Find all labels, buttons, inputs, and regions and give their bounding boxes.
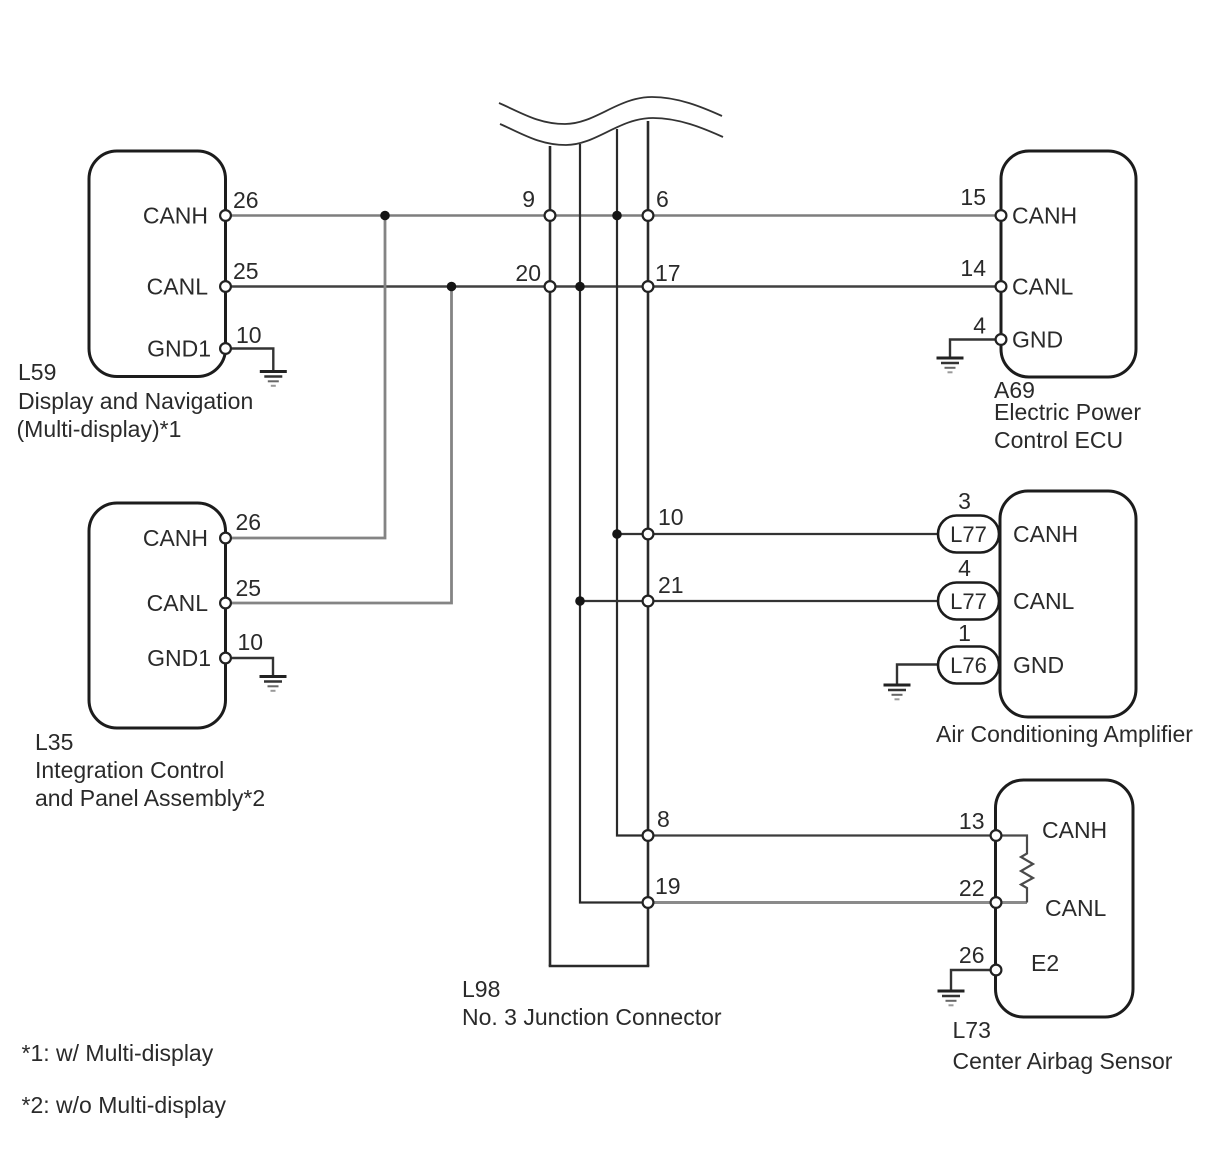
svg-text:GND: GND [1012,327,1063,353]
junction dot CANL to L35 branch [447,282,457,292]
pin L98-10 [643,529,654,540]
wire CANL main bus L59 to A69 [225,285,1001,287]
svg-text:L98: L98 [462,976,500,1002]
svg-text:CANL: CANL [1013,588,1075,614]
pin L73-13 [991,830,1002,841]
pin L35-25 [220,598,231,609]
oval connector L76 (GND) [938,647,999,684]
svg-text:L77: L77 [950,589,987,614]
wire CANH main bus L59 to A69 [225,214,1001,217]
A/C amplifier ground wire [897,665,938,684]
svg-text:CANL: CANL [147,274,209,300]
svg-text:CANH: CANH [143,203,208,229]
junction connector L98 left edge [549,146,552,966]
pin L98-21 [643,596,654,607]
wire 8 to center airbag sensor CANH [648,834,996,836]
internal CANL bus wire to pin 19 [580,144,648,903]
svg-text:6: 6 [656,186,669,212]
svg-text:10: 10 [238,629,264,655]
pin L98-9 [545,210,556,221]
ground symbol L35 [260,677,287,691]
wavy harness break upper line [499,97,722,124]
svg-text:CANH: CANH [1042,817,1107,843]
svg-text:Electric Power: Electric Power [994,399,1141,425]
pin L98-17 [643,281,654,292]
svg-text:26: 26 [236,509,262,535]
L59 ground wire [225,349,273,371]
pin L59-26 [220,210,231,221]
svg-text:19: 19 [655,873,681,899]
svg-text:L59: L59 [18,359,56,385]
svg-text:20: 20 [515,260,541,286]
internal CANH bus wire to pin 8 [617,129,648,836]
svg-text:CANH: CANH [1012,203,1077,229]
pin L59-25 [220,281,231,292]
svg-text:GND1: GND1 [147,336,211,362]
ground symbol A/C amplifier [884,685,911,699]
wire 19 to center airbag sensor CANL [648,901,1027,904]
svg-text:4: 4 [958,555,971,581]
svg-text:Center Airbag Sensor: Center Airbag Sensor [953,1048,1173,1074]
pin L98-19 [643,897,654,908]
wire 10 to A/C amplifier CANH [617,533,938,535]
svg-text:L73: L73 [953,1017,991,1043]
svg-text:E2: E2 [1031,950,1059,976]
connector box A69 [1001,151,1136,377]
svg-text:and Panel Assembly*2: and Panel Assembly*2 [35,785,265,811]
svg-text:GND: GND [1013,652,1064,678]
wavy harness break lower line [500,118,723,145]
center airbag sensor E2 ground wire [951,970,996,990]
svg-text:25: 25 [236,575,262,601]
svg-text:*1: w/ Multi-display: *1: w/ Multi-display [22,1040,214,1066]
wire branch CANH to L35 pin 26 [225,216,385,539]
svg-text:26: 26 [233,187,259,213]
junction dot wire 10 tap [612,529,622,539]
svg-text:4: 4 [973,313,986,339]
pin L59-10 [220,343,231,354]
svg-text:L35: L35 [35,729,73,755]
svg-text:25: 25 [233,258,259,284]
svg-text:22: 22 [959,875,985,901]
connector box L35 [89,503,226,728]
svg-text:Air Conditioning Amplifier: Air Conditioning Amplifier [936,721,1193,747]
pin L98-8 [643,830,654,841]
svg-text:Display and Navigation: Display and Navigation [18,388,253,414]
svg-text:CANH: CANH [143,525,208,551]
junction dot CANH internal bus [612,211,622,221]
junction dot wire 21 tap [575,596,585,606]
svg-text:1: 1 [958,620,971,646]
svg-text:Integration Control: Integration Control [35,757,224,783]
svg-text:L76: L76 [950,653,987,678]
svg-text:26: 26 [959,942,985,968]
junction connector L98 bottom edge [549,965,650,968]
junction dot CANL internal bus [575,282,585,292]
svg-text:3: 3 [958,488,971,514]
A69 ground wire [950,340,1001,357]
pin L73-26 [991,965,1002,976]
svg-text:15: 15 [960,184,986,210]
svg-text:10: 10 [236,322,262,348]
svg-text:GND1: GND1 [147,645,211,671]
ground symbol L59 [260,372,287,386]
svg-text:CANL: CANL [1012,274,1074,300]
connector box L59 [89,151,226,377]
pin L98-20 [545,281,556,292]
oval connector L77 (CANL) [938,583,999,620]
svg-text:21: 21 [658,572,684,598]
pin L98-6 [643,210,654,221]
svg-text:17: 17 [655,260,681,286]
pin A69-4 [996,334,1007,345]
svg-text:(Multi-display)*1: (Multi-display)*1 [17,416,182,442]
L35 ground wire [225,658,273,675]
svg-text:Control ECU: Control ECU [994,427,1123,453]
svg-text:No. 3 Junction Connector: No. 3 Junction Connector [462,1004,722,1030]
svg-text:CANH: CANH [1013,521,1078,547]
svg-text:8: 8 [657,806,670,832]
svg-text:10: 10 [658,504,684,530]
pin L35-10 [220,653,231,664]
resistor (terminating) inside center airbag sensor [996,836,1033,903]
junction dot CANH to L35 branch [380,211,390,221]
pin A69-14 [996,281,1007,292]
pin L73-22 [991,897,1002,908]
pin L35-26 [220,533,231,544]
svg-text:CANL: CANL [147,590,209,616]
pin A69-15 [996,210,1007,221]
svg-text:9: 9 [522,186,535,212]
svg-text:14: 14 [960,255,986,281]
connector box air conditioning amplifier [1000,491,1136,717]
svg-text:*2: w/o Multi-display: *2: w/o Multi-display [22,1092,227,1118]
svg-text:13: 13 [959,808,985,834]
wire 21 to A/C amplifier CANL [580,600,938,602]
svg-text:CANL: CANL [1045,895,1107,921]
wire branch CANL to L35 pin 25 [225,287,452,604]
svg-text:L77: L77 [950,522,987,547]
junction connector L98 right edge [647,121,650,966]
oval connector L77 (CANH) [938,516,999,553]
ground symbol center airbag sensor [938,991,965,1005]
ground symbol A69 [937,358,964,372]
connector box center airbag sensor L73 [996,780,1134,1017]
